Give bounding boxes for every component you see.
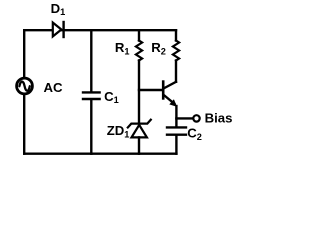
wire: R2 bottom lead (collector rail) [175,61,177,82]
svg-text:Bias: Bias [205,111,233,126]
transistor Q1 [163,82,177,107]
capacitor C1 [83,92,100,99]
capacitor C2 [167,127,186,134]
wire: R1 bottom lead / base node rail [138,61,140,123]
wire: base wire [139,89,163,91]
Bias terminal [193,115,199,121]
resistor R1 [136,41,142,61]
wire: top rail [24,29,176,31]
wire: left rail [23,30,25,154]
wire: bottom rail [24,152,176,154]
resistor R2 [173,41,179,61]
wire: C2 bottom lead [175,136,177,154]
zener diode ZD1 [128,120,151,138]
wire: bias branch [176,117,191,119]
svg-text:AC: AC [44,80,64,95]
wire: C1 branch bottom lead [90,100,92,154]
AC source [17,78,33,94]
wire: ZD1 bottom lead [138,137,140,153]
wire: R2 top lead [175,30,177,40]
diode D1 [53,22,64,37]
wire: C1 branch top lead [90,30,92,91]
wire: emitter rail [175,106,177,127]
wire: R1 top lead [138,30,140,40]
